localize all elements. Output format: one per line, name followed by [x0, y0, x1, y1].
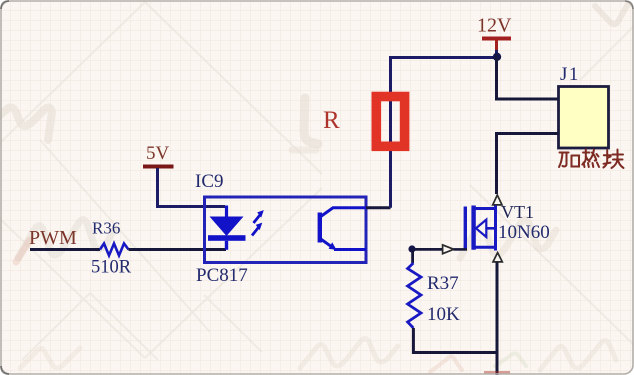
transistor phototransistor of IC9: [320, 208, 366, 250]
svg-text:J1: J1: [560, 64, 580, 85]
wire source down to bottom edge: [496, 263, 499, 375]
wire PWM input to R36: [30, 248, 100, 251]
svg-text:PC817: PC817: [196, 265, 248, 286]
pin arrow drain: [493, 195, 502, 205]
svg-text:R36: R36: [92, 219, 120, 238]
junction gate node: [408, 245, 415, 252]
diode LED of IC9: [208, 206, 246, 250]
wire 5V to LED anode: [158, 168, 226, 207]
svg-text:510R: 510R: [91, 258, 132, 278]
svg-text:R: R: [323, 107, 340, 134]
connector J1 box: [559, 87, 609, 149]
wire gate arrow to gate bar: [454, 248, 468, 251]
resistor R red body: [376, 97, 404, 147]
wire R vertical to 12V rail: [391, 58, 498, 208]
power 12V bar symbol: [482, 37, 511, 41]
wire J1 lower pin to MOSFET drain: [497, 134, 559, 195]
pin arrow gate: [443, 245, 454, 254]
junction 12V node: [493, 53, 501, 61]
label heating block: [559, 150, 624, 169]
light emission arrows of IC9: [252, 210, 264, 235]
power bottom red mark: [484, 371, 510, 374]
power 5V bar symbol: [143, 165, 174, 169]
wire gate from junction: [412, 248, 443, 251]
pin arrow source: [493, 253, 502, 262]
transistor VT1 MOSFET: [465, 206, 495, 251]
wire R37 bottom to source wire: [413, 328, 496, 353]
wire R36 to optocoupler LED cathode: [129, 248, 227, 251]
svg-text:VT1: VT1: [501, 202, 534, 222]
op-amp IC9 optocoupler box: [205, 197, 367, 263]
wire 12V node down to J1 upper pin: [497, 58, 560, 100]
resistor R36 zigzag: [100, 244, 129, 256]
resistor R37 zigzag: [408, 263, 421, 328]
wire 12V stub: [495, 40, 498, 51]
svg-text:10N60: 10N60: [498, 222, 550, 243]
svg-text:12V: 12V: [477, 15, 512, 37]
svg-text:PWM: PWM: [29, 227, 77, 249]
svg-text:5V: 5V: [146, 143, 170, 164]
wire IC9 collector to resistor R: [366, 206, 391, 209]
svg-text:10K: 10K: [427, 304, 460, 325]
wire junction to R37: [411, 249, 414, 263]
svg-text:IC9: IC9: [195, 171, 224, 192]
svg-text:R37: R37: [427, 273, 459, 294]
